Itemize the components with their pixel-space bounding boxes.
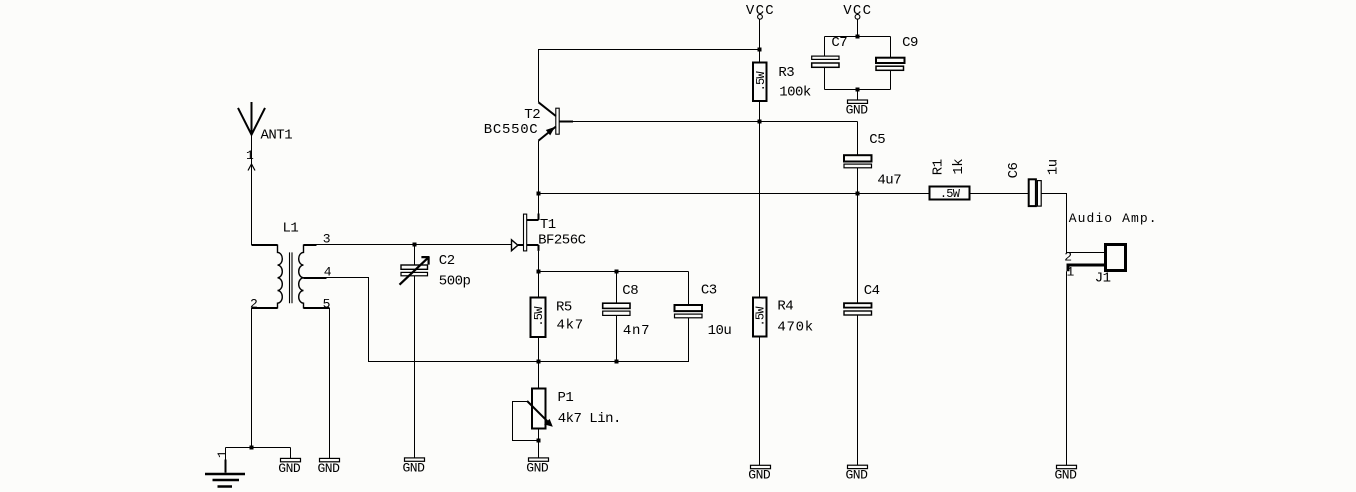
wire L1 pin4 loop	[327, 278, 689, 362]
antenna ANT1	[238, 102, 265, 135]
capacitor C4 wires	[857, 194, 859, 466]
svg-text:2: 2	[1064, 249, 1071, 264]
junction C8 bottom	[615, 360, 619, 364]
P1 wiper wire	[513, 402, 539, 441]
svg-text:P1: P1	[558, 390, 574, 406]
resistor R3 wires	[759, 50, 761, 122]
transistor T2 base bar	[556, 108, 559, 134]
wire cap top rail	[539, 272, 689, 306]
svg-text:C8: C8	[622, 283, 638, 299]
svg-text:.5W: .5W	[532, 306, 546, 327]
wire P1 bottom	[538, 429, 540, 458]
junction R5 bottom	[537, 360, 541, 364]
ground GND pin5	[320, 458, 340, 461]
svg-text:R1: R1	[930, 159, 946, 175]
capacitor C8	[603, 303, 630, 308]
T1 gate bar	[524, 214, 527, 251]
svg-text:GND: GND	[846, 102, 869, 117]
capacitor C5	[844, 155, 872, 161]
capacitor C7	[812, 56, 839, 59]
svg-text:VCC: VCC	[843, 3, 872, 19]
svg-text:GND: GND	[318, 461, 341, 476]
wire VCC1 down	[759, 19, 761, 49]
svg-text:T1: T1	[540, 217, 556, 233]
svg-text:R4: R4	[777, 299, 793, 315]
T2 emitter	[539, 127, 556, 141]
svg-text:1: 1	[215, 450, 230, 458]
svg-text:GND: GND	[1055, 468, 1078, 483]
svg-text:C9: C9	[902, 35, 918, 51]
svg-text:GND: GND	[278, 461, 301, 476]
svg-text:4u7: 4u7	[877, 173, 901, 189]
junction R5 top	[537, 270, 541, 274]
connector J1 box	[1106, 245, 1126, 271]
svg-text:VCC: VCC	[746, 3, 775, 19]
svg-text:L1: L1	[283, 221, 299, 237]
T1 pins	[518, 214, 539, 251]
svg-text:C5: C5	[869, 132, 885, 148]
T2 emitter arrow	[546, 127, 555, 135]
T2 collector	[539, 102, 556, 116]
svg-text:1k: 1k	[951, 159, 967, 175]
transistor T1 gate arrow	[512, 240, 518, 251]
svg-text:GND: GND	[748, 468, 771, 483]
wire antenna to L1	[252, 135, 278, 245]
C2 variable arrow	[400, 257, 430, 285]
L1 secondary winding	[299, 245, 304, 309]
ground GND top	[848, 100, 868, 103]
wire J1 to GND	[1066, 271, 1068, 465]
ground GND pin2	[281, 458, 301, 461]
wire L1 pin5 down	[329, 308, 331, 458]
wire T2 collector to top	[539, 50, 760, 103]
ANT1 pin arrow	[248, 164, 255, 171]
ground GND C2	[405, 458, 425, 461]
svg-text:.5W: .5W	[754, 71, 768, 92]
junction C7C9 bottom	[856, 88, 860, 92]
capacitor C3	[675, 305, 703, 311]
svg-text:C7: C7	[831, 35, 847, 51]
svg-text:100k: 100k	[779, 85, 811, 101]
wire L1 pin2 down	[251, 308, 253, 448]
svg-text:BF256C: BF256C	[538, 233, 586, 249]
junction P1 bottom	[537, 439, 541, 443]
capacitor C9	[876, 58, 905, 63]
earth ground pin stub	[225, 460, 227, 473]
junction C5 bottom	[856, 192, 860, 196]
svg-text:.5W: .5W	[754, 306, 768, 327]
wire C6 to J1	[1041, 194, 1105, 253]
svg-text:J1: J1	[1095, 271, 1111, 287]
svg-text:1u: 1u	[1046, 159, 1062, 175]
L1 core	[290, 252, 293, 303]
svg-text:10u: 10u	[708, 323, 732, 339]
capacitor C8 wires	[616, 315, 618, 361]
svg-text:C3: C3	[701, 283, 717, 299]
svg-text:GND: GND	[526, 460, 549, 475]
wire T2 emitter down	[538, 141, 540, 194]
L1 primary winding	[278, 245, 283, 309]
L1 pin stubs	[252, 245, 330, 308]
wire C2 bottom to GND	[414, 276, 416, 458]
wire T1 source down	[538, 251, 540, 272]
T2 base pin	[559, 121, 573, 123]
svg-text:R5: R5	[556, 300, 572, 316]
ground GND R4	[751, 465, 771, 468]
svg-text:5: 5	[323, 297, 330, 312]
P1 wiper	[527, 401, 548, 422]
svg-text:4k7 Lin.: 4k7 Lin.	[558, 411, 621, 427]
wire VCC2 down	[857, 19, 859, 36]
svg-text:BC550C: BC550C	[484, 122, 539, 138]
J1 pin 1 thick	[1068, 265, 1106, 271]
svg-text:GND: GND	[403, 460, 426, 475]
ground GND C4	[848, 465, 868, 468]
wire T1 drain up	[538, 194, 540, 214]
wire base rail	[559, 122, 857, 156]
svg-text:Audio Amp.: Audio Amp.	[1069, 211, 1158, 226]
wire C7 C9 frame	[825, 37, 891, 101]
wire R1 to C6	[970, 193, 1029, 195]
wire C2 top	[414, 245, 416, 266]
capacitor C4	[844, 303, 872, 307]
svg-text:4n7: 4n7	[623, 323, 650, 339]
ground GND J1	[1057, 465, 1077, 468]
ground GND P1	[529, 458, 549, 461]
junction C8 top	[615, 270, 619, 274]
svg-text:.5W: .5W	[940, 187, 961, 201]
wire R5 top	[538, 272, 540, 298]
resistor R1	[930, 187, 970, 200]
junction R3 top	[758, 48, 762, 52]
resistor R3	[753, 63, 767, 102]
svg-text:GND: GND	[846, 468, 869, 483]
wire L1 pin3 to T1 gate	[317, 244, 512, 246]
svg-text:C6: C6	[1006, 163, 1022, 179]
svg-text:T2: T2	[524, 107, 540, 123]
junction R3 bottom	[758, 120, 762, 124]
svg-text:1: 1	[246, 148, 254, 163]
capacitor C2 plates	[401, 265, 428, 269]
wire R5 bottom to P1	[538, 337, 540, 389]
junction T1 drain node	[537, 192, 541, 196]
svg-text:C2: C2	[439, 253, 455, 269]
resistor R4 wires	[759, 122, 761, 466]
svg-text:C4: C4	[864, 283, 880, 299]
wire main mid rail	[539, 193, 930, 195]
wire ground run	[226, 448, 291, 460]
svg-text:470k: 470k	[777, 320, 813, 336]
svg-text:500p: 500p	[439, 274, 471, 290]
svg-text:4k7: 4k7	[557, 318, 584, 334]
svg-text:R3: R3	[778, 65, 794, 81]
earth ground bars	[205, 474, 245, 487]
junction pin2/ground	[250, 446, 254, 450]
resistor R4	[753, 298, 767, 337]
svg-text:1: 1	[1067, 265, 1075, 280]
capacitor C6	[1029, 179, 1036, 206]
svg-text:ANT1: ANT1	[261, 128, 293, 144]
resistor R5	[531, 298, 546, 338]
junction C2 top	[413, 243, 417, 247]
potentiometer P1	[532, 389, 546, 429]
junction C7C9 top	[856, 35, 860, 39]
